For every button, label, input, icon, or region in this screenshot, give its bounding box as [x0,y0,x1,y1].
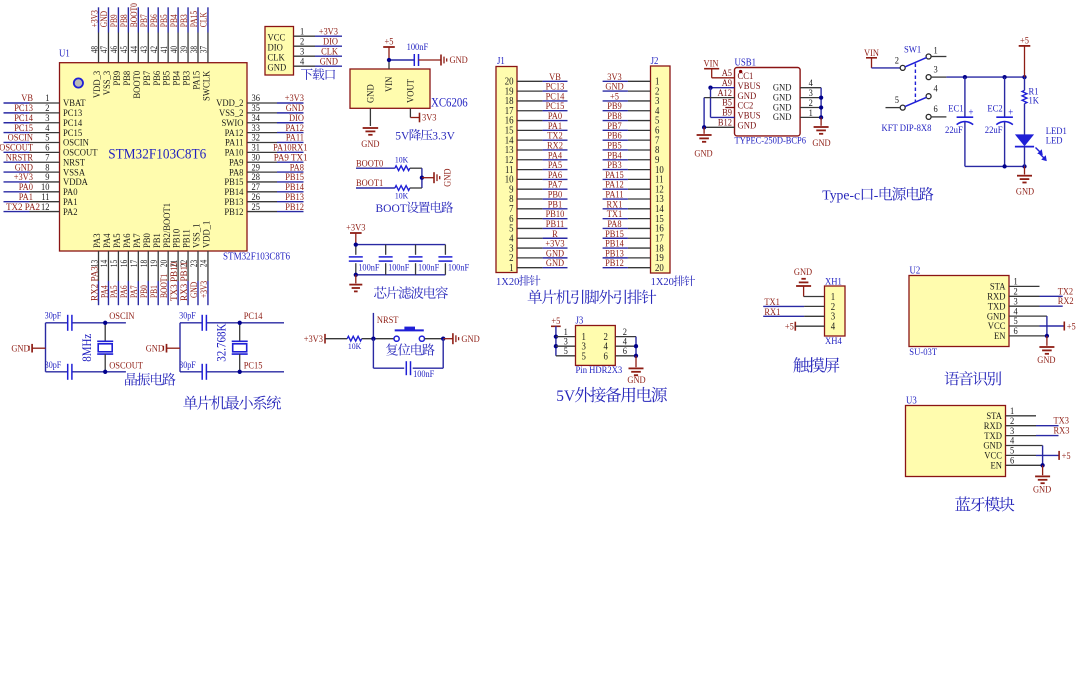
svg-text:5: 5 [564,346,568,357]
resistor R1 1K [1024,77,1026,90]
wire [362,338,394,340]
svg-text:10K: 10K [348,341,362,351]
svg-text:GND: GND [773,112,792,123]
svg-text:VIN: VIN [704,58,719,69]
caption 5V external backup power [556,387,667,405]
capacitor 30pF top [201,315,203,331]
svg-text:GND: GND [694,149,712,160]
U1 pin 47 VSS_3 [107,33,109,63]
svg-text:OSCOUT: OSCOUT [109,361,143,372]
U1 pin 11 PA1 [30,201,60,203]
crystal 32.768K [239,323,241,342]
net label NRST [372,313,374,339]
J3 pin 1 wire [556,336,576,338]
capacitor 100nF reset loop [372,339,374,369]
svg-text:SWCLK: SWCLK [202,71,213,101]
caption J1 1X20 header [496,275,541,288]
J3 pin 6 wire [615,355,636,357]
U1 pin 23 VSS_1 [197,251,199,281]
caption for U2 [945,371,1002,385]
ground GND earth [1046,336,1048,346]
svg-text:+3V3: +3V3 [346,223,365,234]
wire [388,47,390,60]
J3 pin 5 wire [556,355,576,357]
svg-text:+5: +5 [551,316,560,327]
capacitor 100nF filter 2 [385,245,387,255]
svg-text:U2: U2 [910,265,921,276]
svg-text:OSCIN: OSCIN [109,311,134,322]
resistor 10K upper [395,166,410,171]
svg-text:+5: +5 [1062,451,1071,462]
wire [410,167,422,169]
svg-text:GND: GND [1037,355,1055,366]
svg-text:GND: GND [361,139,379,150]
svg-text:100nF: 100nF [388,263,409,273]
svg-text:24: 24 [199,260,210,268]
svg-text:+5: +5 [785,321,794,332]
svg-text:EN: EN [991,461,1002,472]
U1 pin 38 PA15 [197,33,199,63]
svg-text:U1: U1 [59,49,70,60]
wire VBUS B9 [711,116,735,118]
wire BOOT0 [356,167,395,169]
svg-text:100nF: 100nF [448,263,469,273]
svg-text:25: 25 [252,202,261,213]
wire [325,338,347,340]
svg-text:USB1: USB1 [735,57,757,68]
J3 pin 4 wire [615,345,636,347]
U2 EN pin wire [1009,335,1047,337]
U1 pin 37 SWCLK [207,33,209,63]
ground GND bar [440,55,442,66]
svg-text:BOOT: BOOT [376,203,407,215]
caption touch screen [793,357,839,372]
U1 pin 10 PA0 [30,191,60,193]
ground GND flag [31,344,33,353]
U1 pin 4 PC15 [30,132,60,134]
svg-text:6: 6 [934,104,938,115]
svg-text:GND: GND [794,267,812,278]
svg-text:3V3: 3V3 [422,113,437,124]
filter cap rail bottom [356,274,446,276]
U1 pin 48 VDD_3 [98,33,100,63]
caption MCU pin breakout headers [528,290,657,304]
svg-text:4: 4 [934,84,938,95]
U2 GND pin wire [1009,315,1047,317]
U1 pin 44 BOOT0 [137,33,139,63]
svg-text:GND: GND [1016,187,1034,198]
capacitor 30pF bottom [67,364,69,380]
net label RX3 [1006,435,1037,437]
wire GND B12 [704,126,734,128]
svg-text:+5: +5 [1067,321,1076,332]
svg-text:EC2: EC2 [987,104,1002,115]
wire crystal top [180,322,202,324]
svg-text:GND: GND [812,138,830,149]
svg-text:GND: GND [11,344,29,355]
svg-text:GND: GND [461,334,479,345]
svg-text:KFT DIP-8X8: KFT DIP-8X8 [882,123,932,134]
svg-text:PC14: PC14 [244,311,263,322]
net label TX3 [1006,425,1037,427]
ground GND earth left [703,127,705,134]
svg-text:PB12: PB12 [285,202,304,213]
ground GND earth [363,127,379,129]
wire GND A12 [704,97,734,99]
wire RX1 [763,315,804,317]
U1 pin 27 PB14 [247,191,277,193]
svg-text:37: 37 [199,46,210,54]
svg-text:PB12: PB12 [605,258,624,269]
U1 pin 15 PA5 [117,251,119,281]
svg-text:EC1: EC1 [948,104,963,115]
junction node [420,176,424,180]
svg-text:6: 6 [604,351,608,362]
caption chip filter caps [374,286,448,298]
crystal 8MHz [104,323,106,342]
svg-text:TYPEC-250D-BCP6: TYPEC-250D-BCP6 [735,137,807,147]
wire [425,338,444,340]
svg-text:GND: GND [1033,485,1051,496]
U1 pin 40 PB4 [177,33,179,63]
svg-text:GND: GND [146,344,164,355]
wire [795,325,824,327]
svg-text:5: 5 [895,95,899,106]
wire [355,233,357,245]
wire [419,59,441,61]
U1 pin 28 PB15 [247,181,277,183]
svg-text:100nF: 100nF [413,370,434,380]
svg-text:NRST: NRST [377,315,399,326]
U2 pin 1 wire [1009,285,1040,287]
svg-text:+: + [969,107,974,118]
wire VIN to CC1 [711,69,713,78]
caption BOOT setting circuit [376,201,454,215]
wire [410,187,422,189]
svg-text:Pin HDR2X3: Pin HDR2X3 [576,365,623,376]
wire right vertical [635,337,637,356]
svg-text:LED: LED [1046,135,1063,146]
caption Type-c power circuit [822,187,933,203]
svg-text:22uF: 22uF [985,125,1003,136]
svg-text:5V: 5V [556,388,575,405]
svg-text:XH4: XH4 [825,336,842,347]
svg-text:30pF: 30pF [45,311,62,321]
capacitor 30pF top [67,315,69,331]
wire [804,296,825,298]
svg-text:+5: +5 [1020,35,1029,46]
regulator U? XC6206 [350,69,430,108]
svg-text:+3V3: +3V3 [304,334,323,345]
svg-text:Type-c: Type-c [822,188,860,203]
J3 pin 2 wire [615,336,636,338]
wire VIN to SW1 [871,58,873,68]
svg-text:3: 3 [934,65,938,76]
power +5 flag [383,46,395,48]
svg-text:GND: GND [627,375,645,386]
U1 pin 33 PA12 [247,132,277,134]
ground GND earth [1024,166,1026,174]
svg-text:GND: GND [366,84,377,103]
svg-text:30pF: 30pF [179,311,196,321]
U1 pin 39 PB3 [187,33,189,63]
ground GND earth [635,356,637,367]
wire [1024,46,1026,77]
svg-text:8MHz: 8MHz [80,333,94,361]
svg-text:PB12: PB12 [224,207,243,218]
U1 pin 30 PA9 [247,161,277,163]
svg-text:EN: EN [994,331,1005,342]
svg-text:+: + [1008,107,1013,118]
svg-text:GND: GND [738,121,757,132]
svg-text:RX3: RX3 [1054,426,1070,437]
svg-text:1X20: 1X20 [651,277,674,288]
wire VBUS A9 [711,87,735,89]
U2 VCC to +5 flag [1009,325,1040,327]
U1 pin 35 VSS_2 [247,112,277,114]
caption J2 1X20 header [651,275,696,288]
svg-text:1X20: 1X20 [496,277,519,288]
U1 pin 13 PA3 [98,251,100,281]
capacitor 100nF filter 1 [355,245,357,255]
power +3V3 flag [350,232,362,234]
wire power rail [946,76,1024,78]
svg-text:22uF: 22uF [945,125,963,136]
svg-text:6: 6 [623,346,627,357]
svg-text:32.768K: 32.768K [215,324,229,362]
capacitor 30pF bottom [201,364,203,380]
svg-text:5: 5 [582,351,586,362]
U1 pin 19 PB1 [157,251,159,281]
svg-text:GND: GND [268,62,287,73]
U1 pin 32 PA11 [247,141,277,143]
U1 pin 6 OSCOUT [30,151,60,153]
svg-text:STM32F103C8T6: STM32F103C8T6 [223,252,290,263]
svg-text:XC6206: XC6206 [431,95,468,109]
U? GND pin to ground [369,108,371,126]
capacitor 100nF filter 3 [415,245,417,255]
ground GND bar rotated [433,172,435,183]
U1 pin 12 PA2 [30,211,60,213]
U1 pin 41 PB5 [167,33,169,63]
svg-text:GND: GND [450,55,468,66]
SW1 pin stubs [931,56,946,58]
wire [555,326,557,356]
ground GND earth right [820,117,822,125]
svg-text:4: 4 [831,322,835,333]
U1 pin 16 PA6 [127,251,129,281]
U3 GND pin wire [1006,445,1043,447]
svg-text:U3: U3 [906,395,917,406]
svg-text:100nF: 100nF [358,263,379,273]
pushbutton reset [394,336,399,341]
svg-text:2: 2 [895,56,899,67]
U3 EN pin wire [1006,464,1043,466]
svg-text:10K: 10K [395,191,409,201]
svg-text:CLK: CLK [199,12,210,27]
svg-text:RX2: RX2 [1058,296,1074,307]
capacitor 100nF input [389,59,414,61]
U1 pin 25 PB12 [247,211,277,213]
svg-text:GND: GND [443,169,454,187]
ground GND bar [443,338,453,340]
caption for U3 [955,496,1014,511]
svg-text:100nF: 100nF [418,263,439,273]
U1 pin 3 PC14 [30,122,60,124]
LED LED1 [1024,104,1026,135]
wire left vertical [179,323,181,372]
filter cap rail top [356,244,446,246]
microcontroller U1 STM32F103C8T6 [60,63,248,251]
wire bottom rail [965,165,1025,167]
caption download port [301,68,335,80]
U1 pin 9 VDDA [30,181,60,183]
U1 pin 42 PB6 [157,33,159,63]
wire crystal bottom [180,371,202,373]
U1 pin 7 NRST [30,161,60,163]
svg-text:4: 4 [300,56,304,67]
svg-text:10K: 10K [395,154,409,164]
net label RX2 [1009,305,1040,307]
svg-text:-: - [874,188,879,203]
svg-text:SW1: SW1 [904,45,921,56]
wire to ground [422,177,434,179]
svg-text:30pF: 30pF [45,360,62,370]
svg-text:+5: +5 [385,37,394,48]
ground GND earth [355,275,357,284]
svg-text:PA2: PA2 [63,207,78,218]
U1 pin 43 PB7 [147,33,149,63]
wire GND vertical [703,98,705,128]
svg-text:TX2 PA2: TX2 PA2 [6,202,40,213]
ground GND flag [166,344,168,353]
U1 pin 45 PB8 [127,33,129,63]
U1 pin 21 PB10 [177,251,179,281]
U1 pin 46 PB9 [117,33,119,63]
U1 pin 20 PB2/BOOT1 [167,251,169,281]
stub CC2 B5 [725,107,734,109]
svg-text:J1: J1 [497,56,505,67]
ground GND earth [1042,465,1044,475]
power +5 flag [1019,45,1031,47]
U1 pin 8 VSSA [30,171,60,173]
svg-text:VDD_1: VDD_1 [202,221,213,248]
svg-text:GND: GND [320,56,338,67]
U1 pin 2 PC13 [30,112,60,114]
svg-text:1: 1 [809,108,813,119]
U1 pin 34 SWIO [247,122,277,124]
capacitor 100nF filter 4 [444,245,446,255]
caption crystal circuit [125,373,175,386]
power 3V3 flag [419,113,421,123]
svg-text:J3: J3 [576,316,584,327]
U1 pin 26 PB13 [247,201,277,203]
J3 pin 3 wire [556,345,576,347]
resistor 10K reset [347,336,362,341]
U1 pin 36 VDD_2 [247,102,277,104]
wire BOOT1 [356,187,395,189]
caption 5V buck 3.3V [395,129,455,143]
U3 pin 1 wire [1006,415,1037,417]
svg-text:3.3V: 3.3V [432,131,455,143]
wire TX1 [763,305,804,307]
connector download port [265,27,294,76]
U1 pin 1 VBAT [30,102,60,104]
svg-text:12: 12 [41,202,50,213]
svg-text:5V: 5V [395,131,410,143]
svg-text:100nF: 100nF [407,42,429,53]
U3 VCC to +5 flag [1006,454,1037,456]
wire shield vertical [820,88,822,118]
U1 pin 18 PB0 [147,251,149,281]
resistor 10K lower [395,186,410,191]
U1 pin 14 PA4 [107,251,109,281]
caption reset circuit [386,343,435,355]
svg-text:20: 20 [655,263,664,274]
svg-text:1: 1 [509,263,513,274]
U? VOUT to 3V3 flag [409,108,411,117]
U1 pin 31 PA10 [247,151,277,153]
svg-text:1: 1 [934,45,938,56]
wire crystal top [46,322,68,324]
net label TX2 [1009,295,1040,297]
U1 pin 24 VDD_1 [207,251,209,281]
svg-text:VIN: VIN [384,77,395,92]
U1 pin 5 OSCIN [30,141,60,143]
svg-text:STM32F103C8T6: STM32F103C8T6 [108,146,206,162]
svg-text:1K: 1K [1029,96,1040,107]
U1 pin 29 PA8 [247,171,277,173]
svg-text:+3V3: +3V3 [199,281,210,298]
wire VBUS vertical [710,88,712,118]
svg-text:VOUT: VOUT [406,79,417,103]
caption MCU minimum system [183,396,281,410]
svg-text:PC15: PC15 [244,361,263,372]
wire left vertical [45,323,47,372]
wire crystal bottom [46,371,68,373]
U1 pin 17 PA7 [137,251,139,281]
svg-text:30pF: 30pF [179,360,196,370]
svg-text:SU-03T: SU-03T [909,347,937,358]
U1 pin 22 PB11 [187,251,189,281]
svg-text:GND: GND [546,258,564,269]
